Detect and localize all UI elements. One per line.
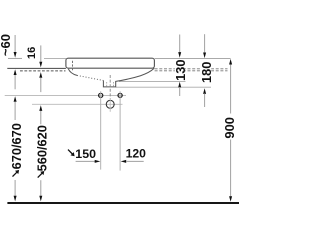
slope arrow for 150 bbox=[68, 150, 75, 157]
arrowhead 560/620 down bbox=[39, 196, 42, 202]
dimension 560/620 line upper bbox=[40, 111, 42, 125]
dimension ~60 line bbox=[14, 35, 16, 52]
arrowhead 560/620 up at overflow dashed reference bbox=[39, 72, 42, 78]
dimension 120 arrow shaft bbox=[127, 160, 144, 162]
wire: rim top extension line, left of basin bbox=[44, 58, 66, 60]
dimension 900 line upper bbox=[230, 64, 232, 113]
bowl outline left slope (dotted hidden line) bbox=[77, 75, 103, 80]
dimension 130 line upper bbox=[179, 35, 181, 53]
wire: drain boss bottom extension line (180 reference) bbox=[116, 86, 211, 88]
drain circle bbox=[106, 100, 114, 108]
arrowhead 180 down bbox=[203, 53, 206, 59]
wire: ~60 reference tick at rim-top level, left bbox=[8, 57, 22, 59]
arrowhead 670/670 down bbox=[14, 196, 17, 202]
arrowhead 560/620 up at drain centerline bbox=[39, 105, 42, 111]
dimension 670/670 line upper (to rim-bottom reference) bbox=[14, 75, 16, 89]
arrowhead 900 down bbox=[229, 196, 232, 202]
arrowhead 150 right bbox=[95, 160, 101, 163]
drain centerline vertical (dashed) bbox=[109, 75, 111, 99]
dimension 670/670 line middle bbox=[14, 102, 16, 120]
wire: right hole vertical extension line down bbox=[119, 91, 121, 170]
slope arrow for 560/620 bbox=[38, 171, 45, 178]
svg-text:900: 900 bbox=[222, 117, 237, 139]
wire: drain centerline horizontal (560/620 reference) bbox=[32, 103, 123, 105]
bowl drain boss and right bowl outline (solid) bbox=[103, 68, 154, 87]
wire: bowl bottom extension line (130 reference) bbox=[119, 81, 186, 83]
arrowhead 120 left bbox=[121, 160, 127, 163]
dimension 900 line lower bbox=[230, 140, 232, 197]
svg-text:130: 130 bbox=[173, 60, 188, 81]
slope arrow for 670/670 bbox=[13, 170, 20, 177]
arrowhead 900 up bbox=[229, 59, 232, 65]
wire: left hole vertical extension line down bbox=[100, 91, 102, 169]
wire: rim top extension line, right of basin to 900 line bbox=[155, 58, 231, 60]
label 180 halo bbox=[201, 62, 211, 82]
arrowhead 670/670 up at hole-centerline reference bbox=[14, 96, 17, 102]
floor line bbox=[7, 202, 239, 204]
arrowhead ~60 down bbox=[14, 52, 17, 58]
dimension 150 arrow shaft bbox=[76, 160, 98, 162]
fixing hole left circle bbox=[99, 93, 103, 97]
dimension 560/620 line lower bbox=[40, 180, 42, 197]
dimension 16 line bbox=[40, 45, 42, 62]
arrowhead 130 down bbox=[178, 52, 181, 58]
wire: dashed hidden line left of basin bbox=[20, 70, 66, 72]
label 130 halo bbox=[175, 59, 185, 80]
svg-text:120: 120 bbox=[126, 146, 147, 160]
drain hole hidden edge dashes bbox=[107, 82, 114, 87]
svg-text:180: 180 bbox=[199, 62, 214, 83]
wire: fixing holes centerline horizontal bbox=[5, 94, 126, 96]
fixing hole right circle bbox=[118, 93, 122, 97]
dimension 670/670 line lower bbox=[14, 180, 16, 197]
dimension 130 line lower bbox=[179, 87, 181, 96]
bowl outline left (solid curve) bbox=[68, 69, 77, 76]
wire: drain circle vertical crosshair bbox=[109, 99, 111, 112]
dimension 180 line lower bbox=[204, 94, 206, 108]
svg-text:150: 150 bbox=[75, 147, 96, 161]
arrowhead 130 up bbox=[178, 82, 181, 88]
svg-text:~60: ~60 bbox=[0, 34, 13, 56]
wire: dashed hidden line right of basin, upper bbox=[155, 68, 228, 70]
washbasin rim (side view) bbox=[66, 58, 154, 68]
wire: rim bottom extension line, left (670/670 upper reference) bbox=[7, 67, 66, 69]
arrowhead 670/670 up at rim-bottom reference bbox=[14, 69, 17, 75]
svg-text:670/670: 670/670 bbox=[9, 123, 24, 169]
svg-text:560/620: 560/620 bbox=[34, 125, 49, 171]
arrowhead 180 up bbox=[203, 88, 206, 94]
svg-text:16: 16 bbox=[26, 47, 38, 59]
dimension 180 line upper bbox=[204, 34, 206, 53]
wire: dashed hidden line right of basin, lower bbox=[155, 70, 228, 72]
faucet hole hidden line (dashed vertical in rim) bbox=[72, 61, 74, 71]
dimension 560/620 stub line below overflow reference bbox=[40, 78, 42, 93]
arrowhead 16 down bbox=[39, 62, 42, 68]
